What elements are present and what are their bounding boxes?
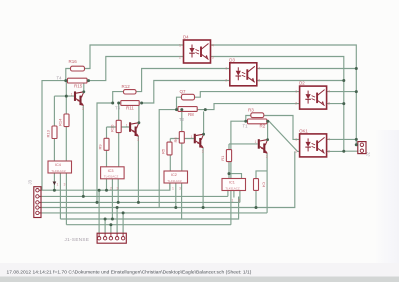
- wire R10 riser to R11 node row: [118, 103, 120, 120]
- junction node R6 tap: [180, 108, 183, 111]
- wire net row7 sense: [66, 224, 231, 226]
- junction node bus D2 pin4: [355, 90, 358, 93]
- svg-text:T4: T4: [57, 75, 63, 80]
- junction node row3 IC3 pin3: [117, 201, 120, 204]
- wire net row6: [60, 197, 238, 220]
- junction node row3 R11 left drop: [96, 201, 99, 204]
- svg-text:R11: R11: [126, 106, 134, 111]
- junction node row4 T2 emitter: [202, 206, 205, 209]
- svg-text:2: 2: [295, 149, 297, 153]
- wire R2 right node diagonal to OK1 pin2: [269, 121, 300, 151]
- svg-text:D4: D4: [183, 35, 189, 40]
- junction node bus OK1 pin3: [342, 150, 345, 153]
- svg-text:2: 2: [295, 102, 297, 106]
- svg-text:3: 3: [238, 199, 240, 203]
- svg-text:17.08.2012 14:14:21 f=1.70 C: 17.08.2012 14:14:21 f=1.70 C:\Dokumente …: [7, 269, 252, 275]
- svg-text:1: 1: [191, 135, 193, 139]
- wire D4 pin4 to right bus: [211, 45, 359, 145]
- wire IC1 pin3 drop: [239, 191, 241, 203]
- transistor T3 pair: [126, 121, 140, 142]
- svg-text:3: 3: [137, 138, 139, 142]
- svg-text:R16: R16: [69, 59, 78, 64]
- junction node R11 right: [140, 102, 143, 105]
- svg-text:2: 2: [110, 187, 112, 191]
- wire R2 left node to sense riser: [231, 121, 246, 225]
- optocoupler D3: [230, 63, 257, 86]
- junction node row6 sense2: [104, 218, 107, 221]
- wire R14 riser to R15 left node: [65, 81, 67, 114]
- junction node R2 left: [244, 120, 247, 123]
- svg-text:2: 2: [225, 78, 227, 82]
- wire OK1 pin3: [327, 150, 344, 152]
- wire T4 collector riser: [83, 83, 85, 92]
- svg-text:3: 3: [82, 107, 84, 111]
- junction node R8 right: [204, 108, 207, 111]
- junction node bus D2 pin3: [342, 102, 345, 105]
- wire R13 top lead: [53, 96, 55, 126]
- svg-text:IC1: IC1: [229, 181, 235, 185]
- wire sense pin4 riser: [116, 208, 118, 234]
- svg-text:R5: R5: [161, 148, 166, 154]
- svg-text:4: 4: [328, 90, 330, 94]
- resistor R7: [182, 94, 195, 100]
- svg-text:IC2: IC2: [171, 173, 177, 177]
- wire R5 top lead: [169, 139, 171, 143]
- svg-text:1: 1: [232, 199, 234, 203]
- wire R16 right lead to D4 pin1: [84, 45, 184, 69]
- svg-text:D2: D2: [299, 81, 305, 86]
- wire OK1 pin4: [327, 138, 357, 140]
- junction node row4 R4 drop: [255, 206, 258, 209]
- svg-text:C4: C4: [262, 182, 267, 188]
- junction node R8 left: [175, 108, 178, 111]
- wire R6 riser to R8 node row: [181, 110, 183, 132]
- junction node row1 sense1: [98, 189, 101, 192]
- wire R5 bottom to IC2 top: [169, 155, 171, 171]
- resistor R2: [248, 119, 267, 124]
- svg-text:IC3: IC3: [108, 169, 114, 173]
- wire R14 bottom to IC4 top: [65, 127, 67, 161]
- wire sense pin2 riser: [104, 219, 106, 233]
- wire T4 base: [54, 95, 74, 97]
- svg-text:TL431ACZ: TL431ACZ: [51, 169, 66, 173]
- wire T3 emitter drop: [137, 136, 139, 202]
- wire IC4 pin2 drop to row6: [59, 173, 61, 220]
- svg-text:3: 3: [117, 187, 119, 191]
- junction node bus D3 pin4: [355, 67, 358, 70]
- junction node R11 left: [111, 102, 114, 105]
- wire R16 left lead riser: [66, 69, 71, 81]
- svg-text:1: 1: [295, 137, 297, 141]
- wire R11 right node to D3 pin2: [142, 81, 230, 104]
- wire R4 bottom drop: [255, 190, 257, 207]
- resistor R10: [116, 120, 121, 132]
- resistor R13: [52, 126, 57, 139]
- svg-text:TL431ACZ: TL431ACZ: [104, 175, 119, 179]
- svg-text:IC4: IC4: [55, 163, 61, 167]
- wire R11 left node drop: [97, 103, 113, 202]
- resistor R4: [254, 179, 259, 191]
- svg-text:3: 3: [202, 150, 204, 154]
- wire T1 emitter jog to R4 top: [256, 171, 267, 179]
- wire R12 right lead to D3 pin1: [136, 69, 230, 92]
- svg-text:OK1: OK1: [299, 128, 308, 133]
- wire D2 pin3: [327, 103, 344, 105]
- transistor T1 pair: [255, 138, 269, 159]
- optocoupler D2: [300, 86, 327, 109]
- resistor R15: [68, 78, 88, 83]
- wire R3 right lead to OK1 pin1: [264, 116, 300, 140]
- wire R8 right node to D2 pin2: [197, 104, 300, 110]
- junction node R2 right: [266, 120, 269, 123]
- wire net row3 cell tap: [41, 201, 240, 203]
- svg-text:4: 4: [328, 137, 330, 141]
- resistor R8: [178, 107, 197, 112]
- svg-text:R8: R8: [188, 112, 194, 117]
- svg-text:1: 1: [225, 66, 227, 70]
- junction node R15 left: [64, 79, 67, 82]
- svg-text:3: 3: [179, 187, 181, 191]
- wire T2 collector riser: [203, 111, 205, 134]
- wire IC1 pin2 stub: [233, 191, 235, 198]
- resistor R1: [226, 150, 231, 162]
- resistor R3: [251, 113, 264, 118]
- connector J1-SENSE: [97, 233, 126, 243]
- wire T2 emitter drop: [202, 148, 204, 208]
- svg-text:4: 4: [212, 44, 214, 48]
- junction node bus D3 pin3: [342, 79, 345, 82]
- resistor R12: [124, 90, 137, 94]
- junction node R14 tap on T4 base: [65, 95, 68, 98]
- wire D3 pin3: [257, 80, 344, 82]
- wire R3 left lead riser: [246, 116, 251, 122]
- wire R12 left lead riser: [113, 92, 124, 103]
- wire D4 pin3 to left bus: [211, 57, 359, 152]
- wire R8 left node drop: [159, 110, 176, 208]
- junction node row1 IC4 pin1: [53, 189, 56, 192]
- wire R15 right node to D4 pin2: [89, 57, 184, 81]
- op-amp IC4: [48, 161, 72, 173]
- svg-text:TL431ACZ: TL431ACZ: [225, 186, 240, 190]
- wire net row5 cell tap: [41, 212, 267, 214]
- wire IC2 pin2 drop: [175, 183, 177, 208]
- optocoupler D4: [184, 40, 211, 63]
- junction node IC1 ref tie: [228, 172, 231, 175]
- transistor T4 T5 pair: [71, 90, 85, 111]
- wire net row1 cell tap: [41, 183, 170, 190]
- wire D3 pin4: [257, 68, 357, 70]
- op-amp IC2: [164, 171, 188, 183]
- wire T1 emitter drop: [266, 153, 268, 213]
- junction node row1 IC3 pin1: [105, 189, 108, 192]
- wire IC4 pin3 drop to row7: [65, 173, 67, 225]
- svg-text:3: 3: [266, 155, 268, 159]
- svg-text:3: 3: [328, 102, 330, 106]
- scan bottom lavender tint: [0, 263, 399, 277]
- wire net row2 cell tap: [41, 195, 228, 197]
- resistor R16: [71, 66, 85, 71]
- op-amp IC1: [222, 179, 246, 191]
- svg-text:Q7: Q7: [180, 89, 187, 94]
- junction node row5 sense5: [122, 211, 125, 214]
- wire T1 base: [229, 143, 258, 145]
- wire IC3 pin2 drop: [111, 179, 113, 219]
- wire T5 emitter drop: [82, 105, 84, 196]
- svg-text:J1-SENSE: J1-SENSE: [65, 237, 90, 242]
- resistor R6: [179, 132, 184, 144]
- svg-text:1: 1: [126, 123, 128, 127]
- svg-text:T1: T1: [243, 124, 249, 129]
- IC4 pin1 arrow junction: [53, 182, 57, 186]
- svg-text:TL431ACZ: TL431ACZ: [167, 179, 182, 183]
- svg-text:T2: T2: [179, 117, 185, 122]
- wire R1 bottom to IC1 top: [228, 162, 230, 179]
- svg-text:R14: R14: [58, 118, 63, 126]
- wire R1 top lead: [228, 144, 230, 150]
- svg-text:1: 1: [179, 44, 181, 48]
- wire R6 bottom to IC2 top: [181, 143, 183, 171]
- wire R9 bottom to IC3 top: [106, 150, 108, 167]
- resistor R5: [167, 142, 172, 155]
- svg-text:R6: R6: [173, 137, 178, 143]
- connector J3: [34, 187, 41, 218]
- wire T1 collector riser: [267, 121, 269, 139]
- wire IC3 pin1 drop: [106, 179, 108, 190]
- junction node row2 T5 emitter: [82, 195, 85, 198]
- wire D2 pin4: [327, 91, 357, 93]
- svg-text:R3: R3: [248, 108, 254, 113]
- svg-text:3: 3: [64, 183, 66, 187]
- svg-text:1: 1: [295, 90, 297, 94]
- svg-text:D3: D3: [229, 57, 235, 62]
- wire net row4 cell tap: [41, 151, 295, 207]
- wire IC2 pin3 drop: [181, 183, 183, 219]
- wire T2 base: [170, 138, 194, 140]
- wire IC2 pin1 drop: [169, 183, 171, 190]
- resistor R9: [104, 138, 109, 150]
- svg-text:J3: J3: [28, 179, 33, 184]
- svg-text:3: 3: [328, 149, 330, 153]
- svg-text:T3: T3: [115, 106, 121, 111]
- junction node R15 right: [87, 79, 90, 82]
- wire R15 left node to J3 pin1 column: [42, 81, 66, 191]
- svg-text:4: 4: [258, 66, 260, 70]
- svg-text:2: 2: [179, 56, 181, 60]
- wire R13 bottom to IC4 pin top: [53, 139, 55, 162]
- svg-text:R1: R1: [220, 155, 225, 161]
- optocoupler OK1: [300, 134, 327, 157]
- scan right edge tint: [374, 130, 399, 277]
- svg-text:R2: R2: [260, 124, 266, 129]
- wire T3 base: [107, 126, 130, 128]
- wire sense pin3 riser: [110, 225, 112, 233]
- junction node bus OK1 pin4: [355, 138, 358, 141]
- wire IC3 pin3 drop: [117, 179, 119, 203]
- svg-text:1: 1: [71, 92, 73, 96]
- svg-text:R12: R12: [122, 84, 131, 89]
- resistor R11: [121, 101, 139, 106]
- wire sense pin1 riser: [98, 190, 100, 233]
- svg-text:R9: R9: [98, 144, 103, 150]
- wire R9 top lead: [106, 127, 108, 138]
- junction node bus J2 pin1: [355, 143, 358, 146]
- junction node row7 sense3: [109, 223, 112, 226]
- wire T3 collector riser: [138, 105, 140, 122]
- svg-text:1: 1: [172, 187, 174, 191]
- junction node row4 sense4: [116, 206, 119, 209]
- svg-text:R15: R15: [74, 84, 83, 89]
- wire IC1 ref tie jog: [229, 174, 242, 179]
- wire IC1 pin1 stub: [227, 191, 229, 197]
- svg-text:R13: R13: [46, 129, 51, 137]
- wire sense pin5 riser: [122, 213, 124, 233]
- junction node row4 IC2 pin2: [174, 206, 177, 209]
- transistor T2 pair: [191, 133, 205, 154]
- svg-text:R10: R10: [110, 124, 115, 132]
- junction node row6 IC3 pin2: [111, 218, 114, 221]
- junction node R10 tap: [117, 102, 120, 105]
- scanner bottom grey band: [0, 277, 399, 282]
- svg-text:3: 3: [258, 78, 260, 82]
- svg-text:3: 3: [212, 56, 214, 60]
- wire R7 right lead to D2 pin1: [194, 92, 299, 98]
- svg-text:1: 1: [57, 183, 59, 187]
- wire R10 bottom to IC3 top: [118, 133, 120, 167]
- connector J2: [358, 142, 366, 154]
- op-amp IC3: [101, 167, 125, 179]
- svg-text:1: 1: [255, 140, 257, 144]
- resistor R14: [64, 114, 69, 127]
- svg-text:J2: J2: [366, 151, 371, 156]
- junction node row3 T3 emitter: [137, 201, 140, 204]
- wire R7 left lead riser: [177, 97, 182, 109]
- wire IC4 pin1 drop: [53, 173, 55, 191]
